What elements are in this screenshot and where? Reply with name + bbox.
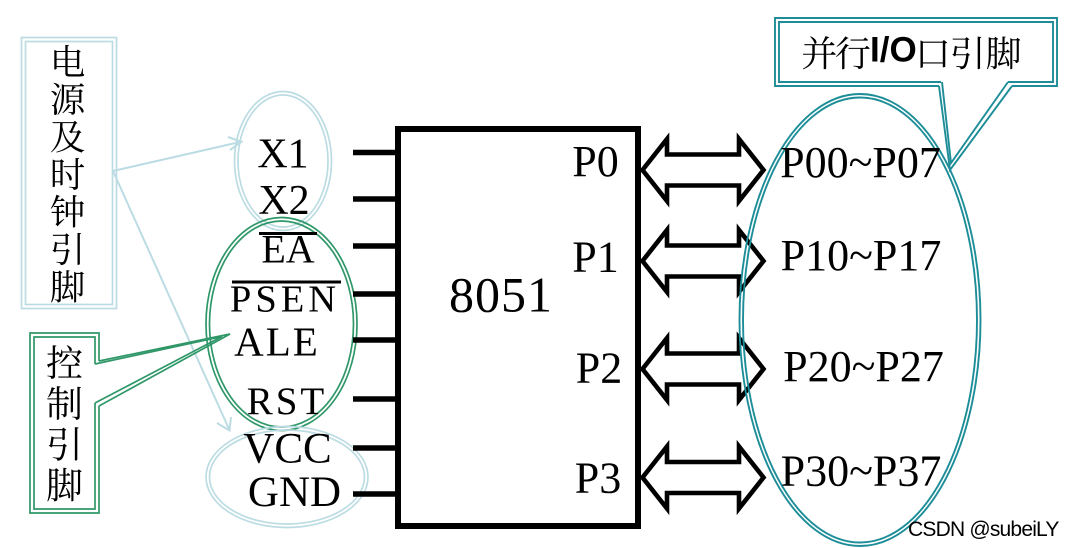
bidirectional bus arrow P0	[643, 139, 764, 201]
callout box: control pins label with wedge pointer	[30, 333, 230, 513]
ellipse around X1 X2	[235, 92, 332, 231]
svg-text:8051: 8051	[449, 267, 553, 323]
svg-text:P0: P0	[572, 137, 618, 186]
pin stub EA	[353, 243, 398, 249]
pin stub GND	[353, 491, 398, 497]
bidirectional bus arrow P3	[643, 447, 764, 509]
svg-text:GND: GND	[248, 469, 341, 516]
svg-text:ALE: ALE	[234, 319, 320, 365]
callout box: power & clock pins label	[22, 38, 117, 309]
box1 vertical Chinese text 电源及时钟引脚	[51, 45, 85, 303]
svg-text:VCC: VCC	[243, 426, 331, 473]
pin stub ALE	[353, 337, 398, 343]
svg-text:I/O: I/O	[870, 31, 917, 70]
svg-text:CSDN @subeiLY: CSDN @subeiLY	[908, 518, 1059, 541]
pin stub RST	[353, 396, 398, 402]
svg-text:P3: P3	[575, 454, 621, 503]
ellipse around VCC GND	[206, 427, 368, 528]
arrow line from box1 to VCC/GND ellipse	[113, 171, 231, 431]
8051 chip body	[398, 129, 638, 526]
svg-text:P2: P2	[576, 344, 622, 393]
large ellipse around port pin ranges	[740, 94, 981, 546]
svg-text:P10~P17: P10~P17	[781, 231, 942, 280]
arrow line from box1 to X1/X2 ellipse	[113, 137, 242, 171]
box3 text 并行 I/O 口引脚	[803, 31, 1020, 70]
pin stub X2	[353, 196, 398, 202]
svg-text:RST: RST	[247, 380, 328, 423]
svg-text:P30~P37: P30~P37	[781, 447, 942, 496]
bidirectional bus arrow P1	[643, 230, 764, 292]
svg-text:P1: P1	[572, 233, 618, 282]
ellipse around EA PSEN ALE RST (green)	[206, 218, 357, 431]
bidirectional bus arrow P2	[643, 338, 764, 400]
pin stub VCC	[353, 445, 398, 451]
svg-text:P00~P07: P00~P07	[780, 138, 941, 187]
svg-text:X2: X2	[258, 178, 309, 224]
callout box: parallel I/O port pins label with wedge pointer	[775, 18, 1057, 170]
box2 vertical Chinese text 控制引脚	[47, 345, 82, 501]
pin stub PSEN	[353, 291, 398, 297]
pin stub X1	[353, 150, 398, 156]
svg-text:PSEN: PSEN	[230, 279, 340, 321]
svg-text:X1: X1	[257, 132, 308, 178]
svg-text:P20~P27: P20~P27	[783, 342, 944, 391]
